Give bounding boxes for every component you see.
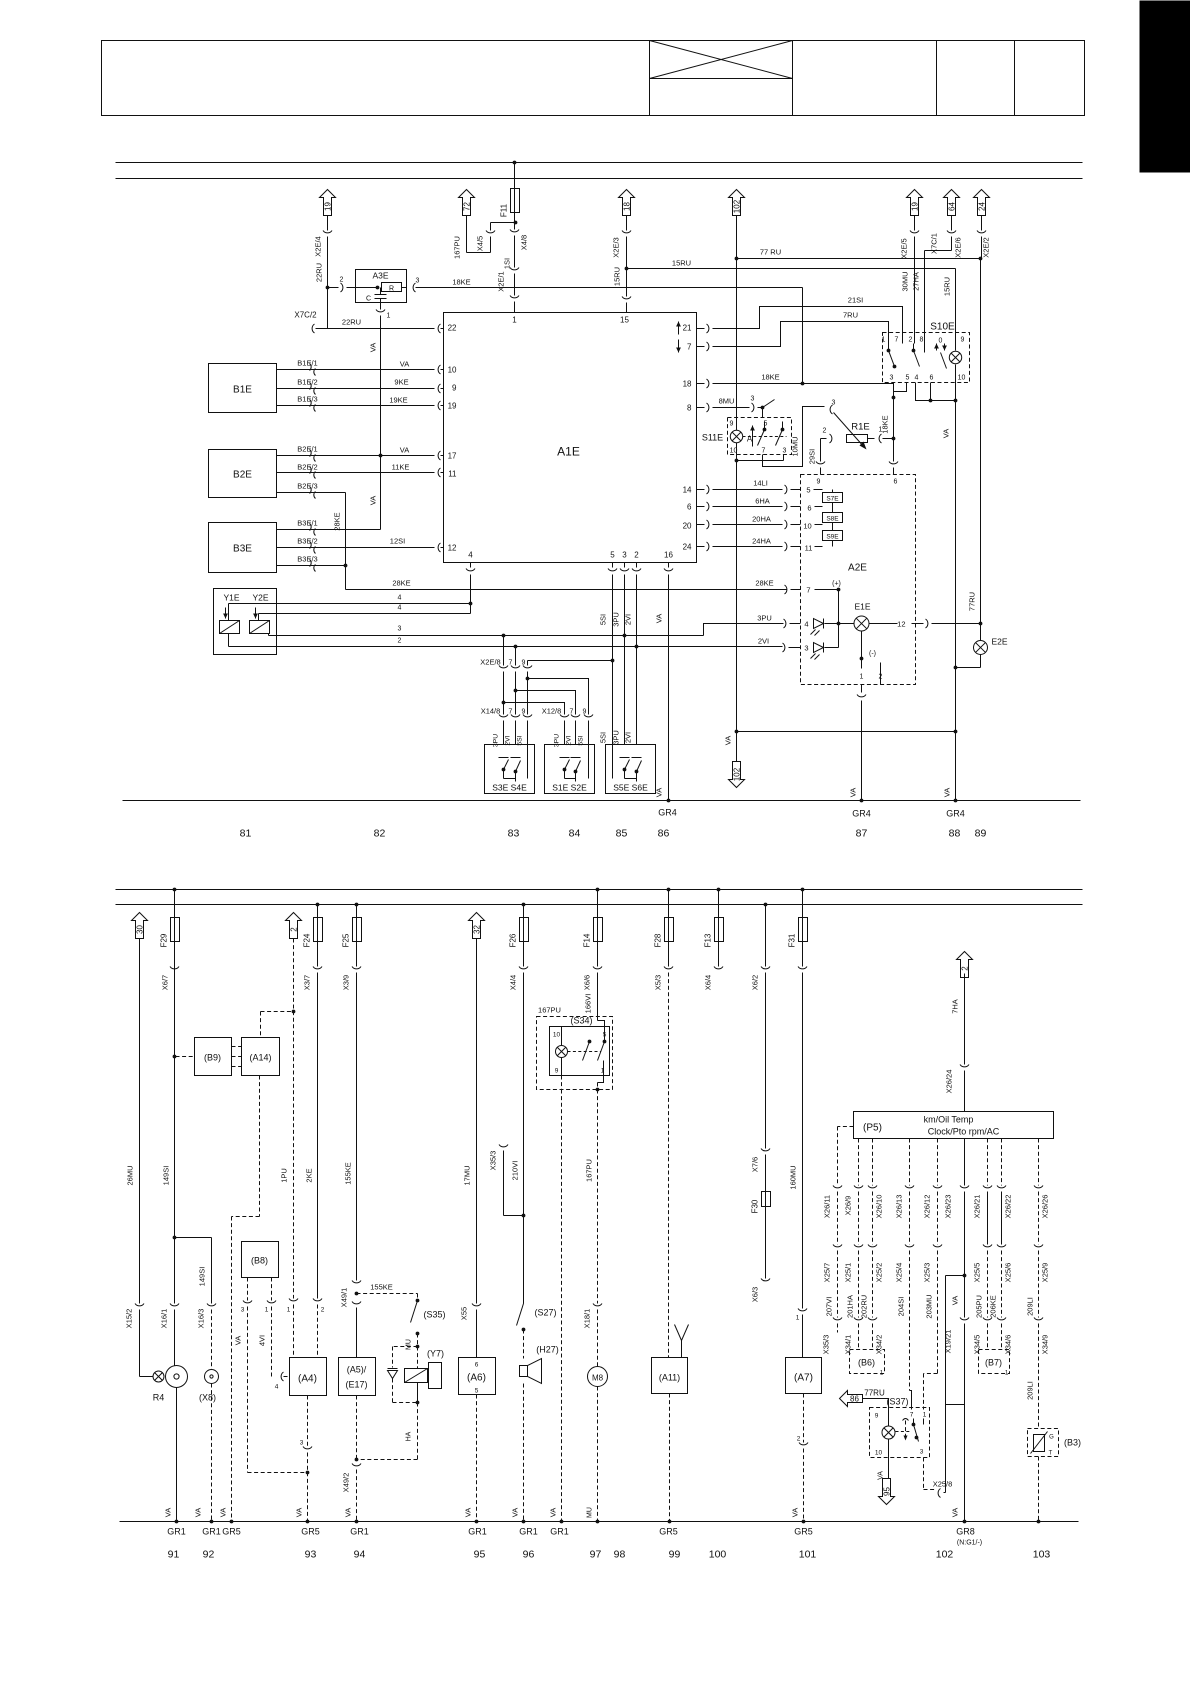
wire 18KE vertical from A3E down [802, 288, 804, 384]
connector X4/8 and wire 1SI X2E/1 to A1E pin 1 [497, 213, 529, 313]
svg-text:GR1: GR1 [350, 1527, 369, 1537]
svg-text:30MU: 30MU [901, 271, 910, 291]
svg-text:C: C [366, 296, 371, 303]
svg-text:(B8): (B8) [251, 1256, 268, 1266]
svg-text:X14/8: X14/8 [481, 707, 501, 716]
svg-text:1: 1 [287, 1307, 291, 1314]
svg-text:(S27): (S27) [534, 1308, 556, 1318]
svg-text:S8E: S8E [826, 516, 839, 523]
wire 1PU from flag 2 to A4 [280, 939, 299, 1358]
wire 18KE from A1E pin 18 [713, 373, 894, 386]
svg-text:B2E/1: B2E/1 [297, 445, 317, 454]
svg-text:19: 19 [324, 202, 333, 211]
svg-text:X26/10: X26/10 [875, 1195, 884, 1219]
svg-text:96: 96 [523, 1549, 535, 1561]
sheet flag 86 with 77RU [840, 1389, 889, 1408]
wire 20HA to A2E pin 10 [713, 515, 801, 530]
wire X26/21 X25/5 205PU X34/5 to B7 [973, 1139, 993, 1355]
potentiometer R1E [821, 400, 894, 450]
sheet flag 32 [469, 913, 485, 939]
svg-text:4: 4 [398, 605, 402, 612]
svg-text:22RU: 22RU [342, 318, 361, 327]
bottom bus line 1 [116, 889, 1083, 891]
wire 2KE from F24 to A4 [303, 942, 325, 1358]
wire B3E/1 VA [277, 519, 381, 536]
control unit A6 [459, 1358, 496, 1395]
svg-text:27HA: 27HA [912, 272, 921, 291]
grid number 103 [1033, 1549, 1051, 1561]
horn H27 [520, 1345, 559, 1384]
svg-text:1: 1 [601, 1068, 605, 1075]
svg-text:7: 7 [910, 1412, 914, 1419]
wire 5SI from A1E pin 5 [599, 563, 618, 745]
svg-text:7: 7 [687, 343, 692, 352]
svg-text:X26/26: X26/26 [1041, 1195, 1050, 1219]
sensor B6 [850, 1350, 885, 1377]
wire X26/11 X25/7 207VI X35/3 from P5 [822, 1127, 854, 1355]
wire 10MU from S11E pin 7 to R1E pin 3 [763, 407, 825, 467]
svg-text:F28: F28 [654, 933, 663, 947]
svg-text:2: 2 [321, 1307, 325, 1314]
svg-text:202RU: 202RU [860, 1295, 869, 1318]
svg-text:0: 0 [939, 338, 943, 345]
svg-text:102: 102 [733, 767, 742, 781]
svg-text:B1E: B1E [233, 385, 252, 396]
svg-text:24: 24 [683, 543, 692, 552]
wire H27 to rail GR1 [511, 1384, 526, 1524]
svg-text:8: 8 [920, 337, 924, 344]
svg-text:X4/8: X4/8 [520, 235, 529, 250]
grid number 83 [508, 828, 520, 840]
svg-text:18KE: 18KE [452, 278, 470, 287]
sensor B2E [209, 450, 277, 498]
svg-text:2VI: 2VI [624, 732, 633, 743]
svg-text:7: 7 [509, 709, 513, 716]
grid number 100 [709, 1549, 727, 1561]
svg-text:4: 4 [915, 375, 919, 382]
connector X4/5 [476, 221, 518, 252]
svg-text:X6/6: X6/6 [583, 975, 592, 990]
svg-text:19: 19 [448, 402, 457, 411]
svg-text:X25/7: X25/7 [823, 1263, 832, 1283]
svg-text:R4: R4 [153, 1393, 165, 1403]
svg-text:F30: F30 [751, 1199, 760, 1213]
svg-text:F14: F14 [583, 933, 592, 947]
svg-text:4VI: 4VI [258, 1335, 267, 1346]
svg-text:X26/23: X26/23 [944, 1195, 953, 1219]
wire X6/2 X7/6 F30 X6/3 [751, 903, 771, 1192]
svg-text:15RU: 15RU [943, 277, 952, 296]
S10E pin 3/5 wires to 18KE node [894, 383, 907, 398]
wire 3 from Y2E [269, 626, 704, 638]
wire B3E/3 [277, 555, 348, 590]
svg-text:21SI: 21SI [848, 296, 863, 305]
svg-text:VA: VA [942, 429, 951, 438]
svg-text:X26/12: X26/12 [923, 1195, 932, 1219]
svg-text:103: 103 [1033, 1549, 1051, 1561]
svg-text:29SI: 29SI [808, 449, 817, 464]
svg-text:88: 88 [949, 828, 961, 840]
svg-text:X19/21: X19/21 [944, 1330, 953, 1354]
svg-text:X26/9: X26/9 [844, 1196, 853, 1216]
svg-text:9: 9 [817, 479, 821, 486]
svg-text:S1E S2E: S1E S2E [552, 783, 587, 793]
solenoid valves Y1E Y2E [214, 589, 277, 655]
svg-text:X34/1: X34/1 [844, 1335, 853, 1355]
wire 77RU down to E2E [968, 259, 983, 641]
svg-text:X34/9: X34/9 [1041, 1335, 1050, 1355]
svg-text:102: 102 [733, 199, 742, 213]
connector X14/8 [481, 707, 532, 748]
svg-text:203MU: 203MU [925, 1294, 934, 1318]
svg-text:(B7): (B7) [985, 1358, 1002, 1368]
svg-text:X35/3: X35/3 [489, 1151, 498, 1171]
wire X2E/5 30MU from flag 19 to S10E pin 2 [900, 216, 920, 344]
top section ground rail [123, 800, 1081, 802]
sheet flag 2 (right) [957, 952, 973, 978]
grid number 96 [523, 1549, 535, 1561]
svg-text:G: G [1049, 1435, 1054, 1441]
svg-text:28KE: 28KE [755, 579, 773, 588]
wire VA horizontal to flag 102 down [724, 732, 956, 746]
svg-text:GR4: GR4 [658, 808, 677, 818]
connector X7C/2 [294, 311, 327, 334]
svg-text:102: 102 [936, 1549, 954, 1561]
svg-text:S9E: S9E [826, 534, 839, 541]
svg-text:GR1: GR1 [468, 1527, 487, 1537]
module B9 [173, 1038, 232, 1076]
svg-text:205PU: 205PU [975, 1295, 984, 1318]
svg-text:95: 95 [474, 1549, 486, 1561]
svg-text:2: 2 [340, 277, 344, 284]
svg-text:X2E/6: X2E/6 [954, 237, 963, 257]
fuse F29 [160, 888, 180, 948]
svg-text:7: 7 [762, 448, 766, 455]
svg-text:166VI: 166VI [584, 994, 593, 1014]
svg-text:30: 30 [136, 925, 145, 934]
connector X6/7 [170, 967, 179, 969]
switch S27 [517, 1304, 557, 1359]
svg-text:X6/4: X6/4 [704, 975, 713, 990]
svg-text:7: 7 [895, 337, 899, 344]
svg-text:VA: VA [234, 1336, 243, 1345]
svg-text:T: T [1049, 1451, 1053, 1457]
svg-text:5SI: 5SI [599, 732, 608, 743]
svg-text:X49/1: X49/1 [340, 1288, 349, 1308]
svg-text:1PU: 1PU [280, 1168, 289, 1183]
fuse F24 [303, 903, 323, 948]
svg-text:10: 10 [958, 375, 966, 382]
svg-text:20HA: 20HA [752, 515, 771, 524]
connector X35/3 branch [489, 1145, 524, 1216]
svg-text:1: 1 [860, 674, 864, 681]
svg-text:X55: X55 [460, 1307, 469, 1320]
svg-text:GR5: GR5 [222, 1527, 241, 1537]
svg-text:6: 6 [930, 375, 934, 382]
sheet flag 64 [944, 190, 960, 216]
svg-text:B3E/1: B3E/1 [297, 519, 317, 528]
svg-text:12: 12 [448, 544, 457, 553]
svg-text:(A14): (A14) [249, 1053, 271, 1063]
grid number 101 [799, 1549, 817, 1561]
svg-text:B2E: B2E [233, 470, 252, 481]
svg-text:2: 2 [961, 966, 970, 971]
svg-text:X34/6: X34/6 [1004, 1335, 1013, 1355]
svg-text:(S37): (S37) [886, 1397, 908, 1407]
wire 15RU horizontal to S10E lamp [627, 259, 956, 351]
svg-text:X49/2: X49/2 [342, 1473, 351, 1493]
svg-text:7: 7 [806, 586, 810, 595]
wire 7RU from A1E pin 7 to S10E pin 1 [713, 311, 889, 347]
svg-text:6: 6 [475, 1362, 479, 1369]
svg-text:155KE: 155KE [370, 1283, 393, 1292]
wire A11 to rail GR5 [668, 1394, 672, 1524]
grid number 102 [936, 1549, 954, 1561]
svg-text:GR1: GR1 [550, 1527, 569, 1537]
svg-text:10: 10 [448, 366, 457, 375]
svg-text:(B3): (B3) [1064, 1438, 1081, 1448]
svg-text:84: 84 [569, 828, 581, 840]
svg-text:8: 8 [687, 404, 692, 413]
svg-text:F13: F13 [704, 933, 713, 947]
switch block S1E S2E [545, 745, 595, 794]
connector X8 [199, 1370, 219, 1403]
svg-text:(S35): (S35) [423, 1310, 445, 1320]
svg-text:VA: VA [344, 1508, 353, 1517]
svg-text:1: 1 [882, 337, 886, 344]
title block frame [102, 41, 1085, 116]
A2E internal lamp module S8E [815, 507, 843, 525]
svg-text:101: 101 [799, 1549, 817, 1561]
svg-text:X26/22: X26/22 [1004, 1195, 1013, 1219]
title block divider cells [937, 41, 1015, 116]
ground GR1 at 94 [350, 1527, 369, 1537]
wire X26/10 X25/2 202RU X34/2 to B6 [860, 1139, 884, 1355]
wire B8 pin 3 VA [234, 1278, 310, 1475]
svg-text:2VI: 2VI [624, 614, 633, 625]
fuse F26 [509, 903, 529, 948]
svg-text:B1E/3: B1E/3 [297, 395, 317, 404]
ground GR8 at 102 [956, 1527, 982, 1547]
svg-text:X26/21: X26/21 [973, 1195, 982, 1219]
svg-text:VA: VA [464, 1508, 473, 1517]
svg-text:155KE: 155KE [344, 1162, 353, 1185]
svg-text:3: 3 [804, 644, 808, 653]
svg-text:5: 5 [806, 486, 810, 495]
svg-text:7HA: 7HA [951, 999, 960, 1014]
svg-text:28KE: 28KE [333, 512, 342, 530]
grid number 81 [240, 828, 252, 840]
svg-text:209LI: 209LI [1026, 1297, 1035, 1316]
svg-text:VA: VA [951, 1296, 960, 1305]
svg-text:91: 91 [168, 1549, 180, 1561]
svg-text:201HA: 201HA [846, 1295, 855, 1318]
wire VA vertical from A3E [369, 329, 381, 530]
top bus line 1 [116, 162, 1083, 164]
wire 155KE branch to S35 [357, 1283, 420, 1303]
grid number 84 [569, 828, 581, 840]
svg-text:99: 99 [669, 1549, 681, 1561]
wire R4 to rail [164, 1388, 179, 1524]
svg-text:14LI: 14LI [753, 479, 768, 488]
wire X6/6 166VI from F14 [583, 942, 605, 1027]
wire 167PU X18/1 from S34 to M8 [583, 1076, 604, 1367]
svg-text:18KE: 18KE [761, 373, 779, 382]
svg-text:5SI: 5SI [599, 614, 608, 625]
sheet flag 18 [619, 190, 635, 216]
switch block S3E S4E [485, 745, 535, 794]
wire X26/22 X25/6 206KE X34/6 to B7 [989, 1139, 1013, 1355]
svg-text:72: 72 [463, 202, 472, 211]
ground GR4 at 87 [852, 799, 871, 819]
wire A6 to rail GR1 [464, 1395, 479, 1524]
fuse F14 [583, 888, 603, 948]
svg-text:F24: F24 [303, 933, 312, 947]
grid number 87 [856, 828, 868, 840]
svg-text:E2E: E2E [991, 637, 1007, 647]
top bus line 2 [116, 178, 1083, 180]
svg-text:2: 2 [290, 927, 299, 932]
svg-text:X2E/4: X2E/4 [314, 236, 323, 256]
svg-text:6: 6 [807, 504, 811, 513]
wire 77RU horizontal [737, 248, 983, 261]
svg-text:16: 16 [664, 551, 673, 560]
svg-text:2: 2 [398, 638, 402, 645]
svg-text:2VI: 2VI [758, 637, 769, 646]
svg-text:2KE: 2KE [305, 1168, 314, 1182]
wire X26/26 X25/9 209LI X34/9 to B3 [1026, 1139, 1050, 1429]
svg-text:149SI: 149SI [198, 1267, 207, 1287]
svg-text:19: 19 [911, 202, 920, 211]
wire 167PU from flag 72 to X4/5 [453, 216, 491, 259]
svg-text:77RU: 77RU [968, 592, 977, 611]
grid number 98 [614, 1549, 626, 1561]
ECU A1E [438, 313, 709, 563]
svg-text:X25/6: X25/6 [1004, 1263, 1013, 1283]
svg-text:3: 3 [890, 375, 894, 382]
svg-text:10: 10 [875, 1450, 883, 1457]
svg-text:3PU: 3PU [493, 734, 500, 747]
svg-text:X4/4: X4/4 [509, 975, 518, 990]
grid number 93 [305, 1549, 317, 1561]
grid number 88 [949, 828, 961, 840]
svg-text:X2E/8: X2E/8 [480, 658, 500, 667]
svg-text:S11E: S11E [702, 433, 723, 443]
svg-text:3PU: 3PU [757, 614, 772, 623]
wire X2E/6 label [954, 237, 963, 257]
svg-text:9: 9 [961, 337, 965, 344]
svg-text:1: 1 [387, 313, 391, 320]
thermistor B3 [1028, 1429, 1082, 1457]
indicator lamp at R4 [153, 1371, 164, 1382]
svg-text:(X8): (X8) [199, 1393, 216, 1403]
svg-text:Y1E: Y1E [223, 593, 239, 603]
wire 149SI X16/3 to X8 [175, 1238, 217, 1370]
svg-text:(E17): (E17) [345, 1380, 367, 1390]
svg-text:3: 3 [832, 400, 836, 407]
ground GR5 at 101 [794, 1527, 813, 1537]
wire X6/4 from F13 [704, 942, 724, 991]
svg-text:GR4: GR4 [946, 809, 965, 819]
svg-text:(+): (+) [832, 581, 841, 588]
svg-text:GR8: GR8 [956, 1527, 975, 1537]
black corner tab [1140, 1, 1190, 173]
svg-text:X34/2: X34/2 [875, 1335, 884, 1355]
svg-text:GR1: GR1 [202, 1527, 221, 1537]
svg-text:3: 3 [300, 1440, 304, 1447]
switch S11E [702, 418, 792, 455]
svg-text:89: 89 [975, 828, 987, 840]
svg-text:Clock/Pto rpm/AC: Clock/Pto rpm/AC [928, 1127, 1000, 1137]
svg-text:87: 87 [856, 828, 868, 840]
svg-text:VA: VA [400, 446, 409, 455]
svg-text:20: 20 [683, 522, 692, 531]
ground GR1 GR5 at 92 [202, 1527, 241, 1537]
svg-text:8MU: 8MU [719, 397, 735, 406]
svg-text:19KE: 19KE [389, 396, 407, 405]
wire F29 149SI X16/1 to R4 [160, 942, 180, 1366]
svg-text:A3E: A3E [372, 271, 388, 281]
ground GR5 at 99 [659, 1527, 678, 1537]
svg-text:9: 9 [730, 421, 734, 428]
svg-text:10: 10 [553, 1032, 561, 1039]
wire HA from Y7 to X49/2 node [357, 1403, 418, 1460]
svg-text:B2E/3: B2E/3 [297, 482, 317, 491]
svg-text:M8: M8 [592, 1374, 604, 1383]
wire A5 bottom X49/2 to rail GR1 [342, 1396, 362, 1524]
svg-text:3PU: 3PU [554, 734, 561, 747]
wire S37 pin 3 to X25/8 [924, 1458, 953, 1498]
svg-text:2: 2 [634, 551, 639, 560]
wire B3 to rail [1037, 1457, 1041, 1524]
wire X26/9 X25/1 201HA X34/1 to B6 [844, 1139, 864, 1355]
svg-text:MU: MU [587, 1507, 594, 1518]
A2E internal lamp module S9E [815, 525, 843, 547]
svg-text:28KE: 28KE [392, 579, 410, 588]
svg-text:15RU: 15RU [672, 259, 691, 268]
ground GR5 at 93 [301, 1527, 320, 1537]
lamp E1E [839, 602, 916, 632]
svg-text:4: 4 [468, 551, 473, 560]
wire 8MU from A1E pin 8 [713, 396, 775, 418]
svg-text:26MU: 26MU [126, 1165, 135, 1185]
ground GR1 at 96 [519, 1527, 538, 1537]
switch S35 [406, 1301, 446, 1350]
svg-text:6HA: 6HA [755, 497, 770, 506]
svg-text:F11: F11 [500, 203, 509, 217]
svg-text:X6/7: X6/7 [161, 975, 170, 990]
svg-text:15RU: 15RU [613, 267, 622, 286]
radio A11 with antenna [652, 1325, 689, 1394]
svg-text:3: 3 [751, 396, 755, 403]
svg-text:S3E S4E: S3E S4E [492, 783, 527, 793]
svg-text:Y2E: Y2E [252, 593, 268, 603]
connector X12/8 [542, 707, 593, 748]
svg-text:S7E: S7E [826, 496, 839, 503]
svg-text:VA: VA [549, 1508, 558, 1517]
grid number 86 [658, 828, 670, 840]
svg-text:GR4: GR4 [852, 809, 871, 819]
svg-text:(-): (-) [869, 651, 876, 658]
svg-text:83: 83 [508, 828, 520, 840]
svg-text:X35/3: X35/3 [822, 1335, 831, 1355]
wire to A2E pin 6 [889, 439, 898, 475]
A3E pin 3 connector and 18KE wire [413, 278, 802, 293]
A2E LED at pin 4 [811, 619, 839, 636]
speed sensor R4 [153, 1366, 188, 1403]
svg-text:94: 94 [354, 1549, 366, 1561]
svg-text:X7/6: X7/6 [751, 1157, 760, 1172]
